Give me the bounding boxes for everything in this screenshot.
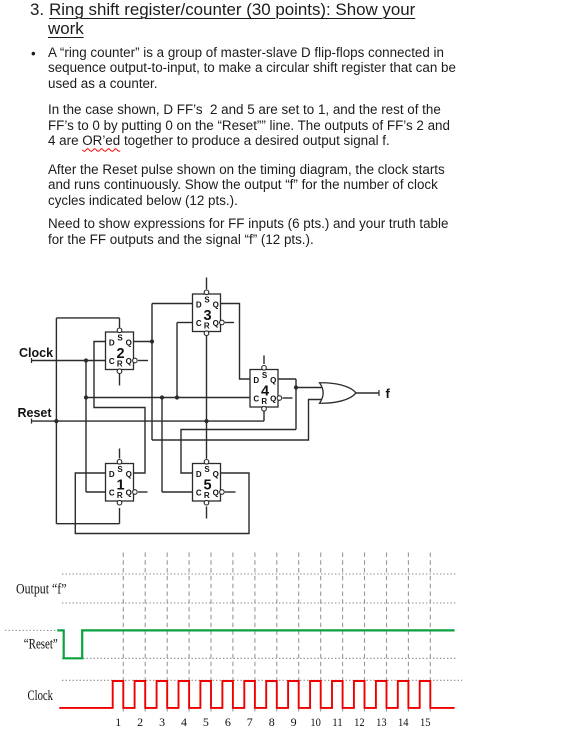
wire clock down to FF5.C [161, 398, 163, 493]
junction clock to FF5 [160, 395, 164, 399]
junction clock drop [84, 358, 88, 362]
junction FF2.Q node [150, 339, 154, 343]
junction reset to FF3.R/FF5.S [204, 419, 208, 423]
wire into FF5.C [162, 491, 193, 493]
svg-text:3: 3 [203, 308, 211, 324]
svg-text:2: 2 [116, 346, 124, 362]
paragraph 4 [48, 216, 448, 247]
wire FF4.Q to FF5.D [181, 430, 296, 474]
wire Reset up to FF4.R [263, 411, 265, 421]
svg-text:4: 4 [181, 715, 187, 729]
stub FF4.S [263, 356, 265, 365]
svg-text:Q: Q [270, 395, 276, 404]
stub FF4.Qbar [283, 397, 293, 399]
wire FF2.Q vertical [151, 304, 153, 441]
svg-text:f: f [386, 386, 391, 401]
svg-text:Q: Q [126, 489, 132, 498]
title [30, 0, 415, 38]
svg-text:C: C [109, 489, 115, 498]
flip-flop FF4 [250, 366, 282, 412]
svg-text:Q: Q [213, 489, 219, 498]
wire clock distribution to FF4.C [86, 397, 250, 399]
stub FF3.S [206, 278, 208, 290]
wire FF2.Q out [134, 341, 153, 343]
stub FF2.R [119, 373, 121, 385]
svg-text:14: 14 [398, 715, 409, 729]
stub FF5.Qbar [225, 491, 236, 493]
svg-text:D: D [196, 301, 202, 310]
svg-text:Q: Q [213, 470, 219, 479]
wire FF2.Q to FF3.D [152, 303, 193, 305]
wire FF4.Q to OR input A [296, 387, 322, 389]
svg-text:Q: Q [213, 319, 219, 328]
bullet [31, 46, 36, 62]
wire reset left vertical [55, 318, 57, 524]
svg-text:3: 3 [159, 715, 165, 729]
stub FF3.Qbar [225, 322, 234, 324]
svg-text:Clock: Clock [28, 688, 54, 704]
wire into FF3.C [177, 322, 193, 324]
flip-flop FF5 [193, 460, 225, 506]
Reset waveform (green) [57, 630, 454, 658]
tick Clock wire start [31, 358, 33, 363]
svg-text:C: C [253, 395, 259, 404]
svg-text:4: 4 [261, 383, 269, 399]
svg-text:C: C [109, 357, 115, 366]
wire FF3.Q to FF4.D [221, 304, 251, 380]
svg-text:S: S [204, 296, 210, 305]
svg-text:D: D [109, 470, 115, 479]
wire to FF2.S top run [56, 317, 119, 319]
OR gate U1 [320, 383, 357, 403]
svg-text:5: 5 [203, 477, 211, 493]
svg-text:Q: Q [126, 357, 132, 366]
svg-text:D: D [253, 376, 259, 385]
svg-text:C: C [196, 319, 202, 328]
svg-text:Q: Q [126, 470, 132, 479]
svg-text:12: 12 [354, 715, 365, 729]
wire FF4.Q vertical [295, 379, 297, 430]
wire FF3.R to FF5.S through reset [206, 336, 208, 459]
svg-text:S: S [117, 334, 123, 343]
wire clock up to FF3.C [176, 323, 178, 398]
paragraph 3 [48, 162, 445, 209]
wire Reset horizontal [31, 420, 264, 422]
flip-flop FF1 [106, 460, 138, 506]
junction FF4.Q node [294, 385, 298, 389]
junction clock distribution [84, 395, 88, 399]
svg-text:D: D [109, 339, 115, 348]
svg-text:S: S [204, 465, 210, 474]
clock cycle numbers 1-15 [115, 715, 430, 729]
svg-text:Q: Q [126, 339, 132, 348]
svg-text:C: C [196, 489, 202, 498]
wire clock vertical drop [85, 361, 87, 493]
svg-text:6: 6 [225, 715, 231, 729]
wire up into FF1.R [119, 508, 121, 524]
svg-text:15: 15 [420, 715, 431, 729]
svg-text:“Reset”: “Reset” [24, 637, 58, 653]
paragraph 2 [48, 102, 450, 149]
timing grid: dotted level lines [62, 573, 457, 575]
stub FF5.R [206, 507, 208, 519]
wire OR output to f [356, 392, 379, 394]
tick f terminal [378, 390, 380, 396]
Clock waveform (red) [59, 681, 454, 708]
stub FF1.S [119, 449, 121, 459]
svg-text:2: 2 [137, 715, 143, 729]
wire down into FF2.S [119, 318, 121, 328]
wire FF1.Q to FF2.D [94, 342, 145, 474]
wire clock to FF1.C [86, 491, 106, 493]
svg-text:9: 9 [291, 715, 297, 729]
svg-text:7: 7 [247, 715, 253, 729]
stub FF1.Qbar [138, 491, 147, 493]
junction clock to FF3 [175, 395, 179, 399]
wire FF4.Q out [278, 378, 296, 380]
wire Clock to FF2.C [31, 360, 106, 362]
wire bottom run to FF1.R [56, 523, 119, 525]
svg-text:Clock: Clock [19, 346, 53, 360]
svg-text:Q: Q [270, 376, 276, 385]
svg-text:Output “f”: Output “f” [16, 582, 67, 598]
wire FF5.Q to FF1.D feedback [75, 473, 249, 534]
svg-text:11: 11 [332, 715, 343, 729]
svg-text:Q: Q [213, 301, 219, 310]
svg-text:S: S [117, 465, 123, 474]
svg-text:13: 13 [376, 715, 387, 729]
tick Reset wire start [31, 419, 33, 424]
svg-text:D: D [196, 470, 202, 479]
junction reset left branch [54, 419, 58, 423]
svg-text:1: 1 [115, 715, 121, 729]
paragraph 1 [48, 45, 456, 92]
svg-text:10: 10 [310, 715, 321, 729]
svg-text:S: S [262, 371, 268, 380]
wire FF2.Q to OR input B [152, 400, 322, 441]
svg-text:8: 8 [269, 715, 275, 729]
stub FF2.Qbar [138, 360, 148, 362]
timing grid: vertical cycle lines [122, 553, 124, 712]
svg-text:5: 5 [203, 715, 209, 729]
svg-text:Reset: Reset [18, 406, 53, 420]
flip-flop FF3 [193, 290, 225, 336]
flip-flop FF2 [106, 328, 138, 374]
svg-text:1: 1 [116, 477, 124, 493]
